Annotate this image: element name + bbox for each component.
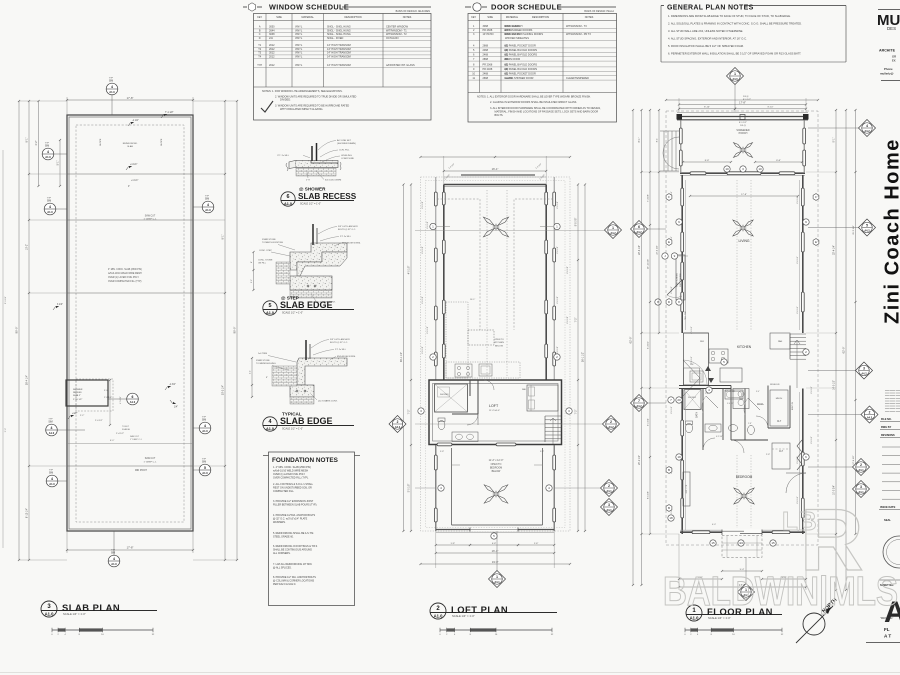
slab plan title — [41, 601, 57, 617]
kitchen counters — [684, 333, 709, 385]
detail 5 left dims — [253, 252, 255, 290]
loft stairs — [545, 415, 561, 417]
svg-text:4’-0 1/8": 4’-0 1/8" — [409, 266, 411, 275]
svg-text:8’-1": 8’-1" — [26, 137, 29, 142]
svg-text:3: 3 — [860, 485, 862, 489]
svg-text:A1.0: A1.0 — [111, 562, 117, 566]
svg-text:BUILT-IN: BUILT-IN — [792, 402, 794, 410]
svg-text:1x6 TRIM: 1x6 TRIM — [258, 353, 267, 355]
loft roof overhang dotted lines — [421, 177, 571, 531]
svg-text:5’-8": 5’-8" — [440, 451, 444, 453]
left page edge dim remnants — [2, 150, 4, 548]
svg-text:RECESS: RECESS — [73, 392, 82, 394]
svg-text:2’-8": 2’-8" — [766, 454, 770, 456]
svg-text:15: 15 — [771, 541, 775, 545]
svg-text:4: 4 — [269, 419, 272, 425]
loft top dims — [443, 156, 445, 185]
floor front wall — [680, 172, 805, 174]
door schedule table — [468, 14, 617, 123]
svg-text:SNGL - SNGL HUNG: SNGL - SNGL HUNG — [327, 26, 351, 29]
svg-text:SIM: SIM — [205, 198, 209, 201]
svg-text:SIM: SIM — [47, 200, 51, 203]
svg-text:CLT: CLT — [779, 451, 784, 453]
svg-text:A4.3: A4.3 — [867, 416, 873, 419]
svg-text:4: 4 — [49, 205, 51, 209]
svg-text:B: B — [668, 468, 670, 472]
loft bottom dims — [435, 531, 437, 568]
svg-text:KEY: KEY — [257, 16, 262, 19]
kitchen arrows — [705, 366, 711, 371]
svg-text:P.T. 2x SILL: P.T. 2x SILL — [335, 349, 347, 351]
detail 4 title — [263, 417, 277, 431]
svg-text:4: 4 — [204, 424, 206, 428]
svg-text:4: 4 — [51, 477, 53, 481]
svg-text:D3 @: D3 @ — [743, 96, 749, 98]
svg-text:BALDWIN|MLS: BALDWIN|MLS — [663, 568, 898, 614]
svg-text:@ SHOWER: @ SHOWER — [299, 187, 326, 192]
svg-text:LEVELING: LEVELING — [341, 155, 352, 157]
slab top dimension — [66, 97, 68, 115]
svg-text:4’-0 1/8": 4’-0 1/8" — [567, 266, 569, 274]
svg-text:3 1/4": 3 1/4" — [57, 304, 63, 306]
bedroom closet zigzag door — [797, 440, 802, 470]
detail 4 left dims — [251, 358, 253, 397]
svg-text:6: 6 — [287, 194, 290, 200]
svg-text:TYP: TYP — [109, 78, 114, 80]
bedroom bottom bubbles — [710, 540, 716, 546]
floor bottom wall — [680, 531, 805, 533]
loft callout diamonds — [605, 222, 622, 239]
svg-text:A1.0: A1.0 — [266, 427, 274, 431]
svg-text:NOTES: 1. FOR WINDOW LITE A: NOTES: 1. FOR WINDOW LITE ARRANGEMENTS, … — [262, 90, 343, 93]
svg-text:30’-3 1/4": 30’-3 1/4" — [222, 385, 225, 395]
svg-text:D3 @: D3 @ — [740, 125, 746, 127]
general plan notes box — [661, 5, 664, 7]
floor grid bubbles — [676, 219, 682, 225]
svg-text:A4.2: A4.2 — [861, 372, 867, 375]
svg-text:W/TRANSOM - T3: W/TRANSOM - T3 — [566, 25, 587, 28]
svg-text:A1.0: A1.0 — [49, 482, 55, 486]
loft vanity — [452, 432, 478, 442]
svg-text:2668: 2668 — [483, 45, 489, 48]
svg-text:8’-8": 8’-8" — [776, 160, 781, 162]
slab bottom dimension — [66, 531, 68, 553]
svg-text:EXT - SCREEN DOORS: EXT - SCREEN DOORS — [505, 29, 533, 32]
living interior dotted lines — [736, 180, 738, 330]
svg-text:4’-0 1/8": 4’-0 1/8" — [567, 316, 569, 324]
bath2 toilet — [748, 425, 755, 434]
loft top wall — [444, 184, 546, 186]
svg-text:END-EDGE W.W.M.: END-EDGE W.W.M. — [337, 356, 356, 358]
svg-text:80’-0": 80’-0" — [233, 327, 237, 334]
svg-text:A1.0: A1.0 — [202, 429, 208, 433]
svg-text:3050: 3050 — [269, 26, 275, 29]
svg-text:W/TRANSOM - PR T3: W/TRANSOM - PR T3 — [566, 33, 591, 36]
svg-text:19: 19 — [677, 455, 681, 459]
svg-text:A1.0: A1.0 — [284, 202, 292, 206]
svg-text:2’-2 1/4": 2’-2 1/4" — [104, 397, 112, 399]
slab plan scale bar — [52, 629, 153, 631]
slab plan outline — [67, 115, 193, 531]
svg-text:3: 3 — [863, 366, 865, 370]
svg-text:mullerly@: mullerly@ — [880, 72, 894, 76]
floor callout diamonds right — [859, 120, 876, 137]
svg-text:1" DEEP C.J.: 1" DEEP C.J. — [130, 439, 142, 441]
svg-text:6’-8": 6’-8" — [492, 543, 496, 545]
svg-text:4: 4 — [51, 426, 53, 430]
svg-text:+1/2": +1/2" — [72, 413, 78, 415]
svg-text:8’-1": 8’-1" — [834, 137, 836, 142]
svg-text:FILE NO.: FILE NO. — [881, 418, 892, 421]
svg-text:5: 5 — [269, 303, 272, 309]
svg-text:A1.0: A1.0 — [202, 471, 208, 475]
svg-text:5/8" LGTS. ANCHOR: 5/8" LGTS. ANCHOR — [330, 338, 350, 341]
svg-text:MATERIAL: MATERIAL — [506, 16, 519, 19]
svg-text:4’-0 1/8": 4’-0 1/8" — [427, 221, 429, 229]
svg-text:62’-0": 62’-0" — [842, 347, 846, 354]
svg-text:(2) #5 BARS CONT.: (2) #5 BARS CONT. — [318, 400, 338, 403]
svg-text:14" HIGH TRANSOM: 14" HIGH TRANSOM — [327, 44, 351, 47]
svg-text:A4.2: A4.2 — [864, 130, 870, 133]
entry door arcs — [683, 360, 700, 396]
loft toilet — [438, 420, 445, 429]
svg-text:4: 4 — [113, 557, 115, 561]
loft room windows bottom — [437, 443, 452, 446]
svg-text:TO WATER-EDGING: TO WATER-EDGING — [256, 362, 276, 365]
svg-text:4’-0 1/8": 4’-0 1/8" — [557, 346, 559, 354]
svg-text:5’-0 1/8": 5’-0 1/8" — [409, 484, 411, 493]
svg-text:4: 4 — [207, 203, 209, 207]
bath2 partition — [722, 389, 724, 441]
svg-text:SNGL - SNGL HUNG: SNGL - SNGL HUNG — [327, 29, 351, 32]
svg-text:3. ALL STUD WALL ARE 2X4, UN: 3. ALL STUD WALL ARE 2X4, UNLESS NOTED O… — [668, 29, 743, 33]
svg-text:TOILET: TOILET — [122, 426, 130, 428]
svg-text:14’-9 1/2": 14’-9 1/2" — [834, 380, 836, 390]
svg-text:END-EDGE W.W.M.: END-EDGE W.W.M. — [342, 243, 361, 245]
svg-text:NOTES: 1. ALL EXTERIOR DOOR: NOTES: 1. ALL EXTERIOR DOOR HARDWARE SHA… — [477, 96, 591, 99]
detail 5 anchor bolt — [312, 224, 314, 245]
svg-text:SHOWER: SHOWER — [688, 397, 697, 399]
svg-text:2" R: 2" R — [306, 180, 310, 182]
svg-text:W/FIXED SIDELITES: W/FIXED SIDELITES — [505, 37, 529, 40]
svg-text:KITCHEN: KITCHEN — [737, 345, 752, 349]
loft bottom opening — [470, 528, 518, 531]
svg-text:7’-2": 7’-2" — [409, 409, 411, 414]
svg-text:4’-0 1/8": 4’-0 1/8" — [557, 246, 559, 254]
svg-text:5’-1": 5’-1" — [57, 160, 60, 165]
svg-text:GR: GR — [892, 55, 896, 59]
svg-text:DOOR SCHEDULE: DOOR SCHEDULE — [491, 3, 562, 12]
sheet no row — [879, 579, 900, 581]
bath door swings — [706, 396, 718, 408]
floor roof overhang dashed rect — [666, 111, 818, 545]
svg-text:17’-8": 17’-8" — [127, 546, 134, 550]
svg-text:4’-6 1/4": 4’-6 1/4" — [797, 306, 799, 314]
svg-text:DESCRIPTION: DESCRIPTION — [532, 16, 549, 19]
svg-text:1: 1 — [612, 226, 614, 230]
svg-text:BASIS OF DESIGN: JELD-WEN: BASIS OF DESIGN: JELD-WEN — [396, 10, 431, 13]
svg-text:5/8" LGTS. ANCHOR: 5/8" LGTS. ANCHOR — [338, 225, 358, 228]
svg-text:A T: A T — [884, 634, 891, 639]
svg-text:P.T. 2x SILL: P.T. 2x SILL — [277, 155, 289, 157]
loft partition walls — [477, 380, 479, 414]
loft door arcs — [467, 414, 478, 425]
svg-text:VINYL: VINYL — [295, 33, 303, 36]
svg-text:-1 3/4": -1 3/4" — [169, 384, 176, 386]
svg-text:6: 6 — [132, 395, 134, 399]
svg-text:REVISIONS: REVISIONS — [881, 434, 895, 437]
svg-text:4: 4 — [866, 124, 868, 128]
detail 5 title — [263, 301, 277, 315]
svg-text:5. ROOF INSULATION SHALL BE: 5. ROOF INSULATION SHALL BE 5 1/2" OF SP… — [668, 44, 744, 48]
svg-text:Zini Coach Home: Zini Coach Home — [882, 138, 900, 324]
title block logo MU — [878, 9, 900, 11]
svg-text:8’-1 1/2": 8’-1 1/2" — [739, 122, 747, 124]
svg-text:SCALE 1/4" = 1'-0": SCALE 1/4" = 1'-0" — [452, 614, 475, 618]
svg-text:D: D — [259, 37, 261, 40]
svg-text:3068: 3068 — [483, 25, 489, 28]
svg-text:4’-5 1/2": 4’-5 1/2" — [120, 396, 122, 404]
loft bed — [527, 385, 558, 411]
svg-text:SIM: SIM — [202, 419, 206, 422]
svg-text:8’-1 1/2": 8’-1 1/2" — [743, 99, 751, 101]
svg-text:7’-2": 7’-2" — [576, 409, 578, 414]
svg-text:A1.0: A1.0 — [49, 431, 55, 435]
svg-text:1'-4": 1'-4" — [250, 370, 252, 374]
bath vanity — [705, 424, 721, 432]
svg-text:3’-6": 3’-6" — [5, 428, 7, 433]
svg-text:6’-4 1/2": 6’-4 1/2" — [648, 341, 650, 349]
porch interior dims — [683, 161, 731, 163]
svg-text:SAW CUT: SAW CUT — [145, 457, 156, 460]
svg-text:OVER COMPACTED FILL (TYP).: OVER COMPACTED FILL (TYP). — [273, 477, 309, 480]
bath2 vanity oval — [728, 425, 737, 432]
svg-text:A4.2: A4.2 — [636, 405, 642, 408]
svg-text:A4.2: A4.2 — [636, 231, 642, 234]
svg-text:SAW CUT: SAW CUT — [130, 435, 140, 438]
bedroom entertainment niche — [683, 472, 690, 506]
svg-text:@ ALL SPLICES.: @ ALL SPLICES. — [273, 567, 292, 570]
svg-text:4. ALL STUD SPACING, EXTERIO: 4. ALL STUD SPACING, EXTERIOR AND INTERI… — [668, 37, 747, 41]
svg-text:A1.0: A1.0 — [47, 210, 53, 214]
svg-text:SIM: SIM — [202, 461, 206, 464]
floor plan scale bar — [685, 629, 782, 631]
loft right dims — [577, 185, 579, 532]
svg-text:W/TRANSOM - T2: W/TRANSOM - T2 — [386, 33, 407, 36]
svg-text:17’-8": 17’-8" — [741, 194, 747, 196]
svg-text:PR 2068: PR 2068 — [483, 64, 493, 67]
svg-text:7: 7 — [638, 399, 640, 403]
svg-text:1'-2": 1'-2" — [251, 279, 253, 283]
porch screen walls — [680, 120, 682, 172]
floor left dim lines — [632, 110, 634, 585]
svg-text:A4.2: A4.2 — [395, 426, 401, 429]
svg-text:6x6 10/10 WWM: 6x6 10/10 WWM — [325, 180, 341, 182]
svg-text:GENERAL PLAN NOTES: GENERAL PLAN NOTES — [667, 5, 754, 12]
svg-text:BELOW: BELOW — [495, 345, 504, 347]
svg-text:4’-6 1/4": 4’-6 1/4" — [691, 356, 693, 364]
svg-text:80’-0": 80’-0" — [15, 327, 19, 334]
svg-text:BASIS OF DESIGN: PELLA: BASIS OF DESIGN: PELLA — [584, 10, 614, 13]
stairs right — [790, 333, 806, 335]
svg-text:FL: FL — [884, 627, 890, 632]
porch posts — [677, 114, 683, 120]
svg-text:2’-4 1/2": 2’-4 1/2" — [95, 420, 103, 422]
kitchen range — [709, 349, 728, 363]
svg-text:KEY: KEY — [471, 16, 476, 19]
svg-text:16’-1": 16’-1" — [470, 299, 475, 301]
svg-text:B: B — [668, 506, 670, 510]
porch ceiling fan — [745, 151, 753, 157]
svg-text:E: E — [815, 240, 817, 244]
svg-text:(2) PANEL BI-FOLD DOORS: (2) PANEL BI-FOLD DOORS — [505, 49, 537, 52]
floor callout diamonds left — [631, 221, 648, 238]
svg-text:TYP: TYP — [202, 459, 207, 461]
detail 6 break marks — [286, 163, 288, 171]
bath2 tub — [725, 390, 743, 399]
entertainment center niche — [676, 255, 685, 300]
svg-text:PORCH: PORCH — [739, 132, 748, 135]
svg-text:BARN DOOR: BARN DOOR — [505, 58, 520, 61]
svg-text:A1.0: A1.0 — [109, 90, 115, 94]
svg-text:7’-2": 7’-2" — [576, 317, 578, 322]
svg-text:2668: 2668 — [483, 77, 489, 80]
svg-text:CLT: CLT — [777, 420, 782, 423]
svg-text:WITH INSULATED IMPACT GLAZING.: WITH INSULATED IMPACT GLAZING. — [280, 108, 324, 111]
svg-text:8’-1": 8’-1" — [639, 137, 641, 142]
svg-text:4: 4 — [47, 150, 49, 154]
svg-text:15’-3 1/4": 15’-3 1/4" — [853, 225, 855, 235]
svg-text:SLAB EDGE: SLAB EDGE — [280, 416, 333, 426]
svg-text:"DRAWING": "DRAWING" — [880, 617, 893, 620]
svg-text:FLANGE: FLANGE — [122, 428, 131, 431]
loft deck rail right — [553, 177, 555, 380]
svg-text:COMPACTED FILL.: COMPACTED FILL. — [273, 490, 295, 493]
porch steps left — [663, 131, 665, 171]
svg-text:8’-0 1/4": 8’-0 1/4" — [5, 296, 7, 304]
svg-text:MID POINT: MID POINT — [135, 470, 147, 472]
detail 6 shower slab recess drawing — [295, 161, 338, 168]
svg-text:STAIR STONE: STAIR STONE — [256, 359, 270, 362]
svg-text:GLASS SHOWER DOOR: GLASS SHOWER DOOR — [505, 77, 534, 80]
svg-text:BOLTS @ 32" O.C.: BOLTS @ 32" O.C. — [330, 342, 348, 344]
svg-text:SLOPE: SLOPE — [161, 138, 163, 146]
svg-text:22’-4 1/4": 22’-4 1/4" — [657, 245, 659, 255]
svg-text:TYP: TYP — [47, 198, 52, 200]
loft right wall upper — [545, 185, 547, 381]
svg-text:6’-2 1/4": 6’-2 1/4" — [716, 436, 723, 438]
svg-text:1" DEEP C.J.: 1" DEEP C.J. — [143, 461, 156, 463]
svg-text:TYP: TYP — [48, 419, 53, 421]
svg-text:SCALE 1/4" = 1'-0": SCALE 1/4" = 1'-0" — [63, 612, 86, 616]
svg-text:11’-2" x 12’-0": 11’-2" x 12’-0" — [489, 459, 504, 462]
svg-text:4": 4" — [128, 186, 130, 188]
svg-text:4’-6 1/4": 4’-6 1/4" — [797, 256, 799, 264]
kitchen island — [720, 368, 742, 382]
svg-text:2. GLAZING IN EXTERIOR DOORS: 2. GLAZING IN EXTERIOR DOORS SHALL BE IN… — [490, 101, 577, 104]
svg-text:2012: 2012 — [269, 55, 275, 58]
svg-text:OVER COMPACTED FILL (TYP): OVER COMPACTED FILL (TYP) — [108, 280, 142, 283]
svg-text:E: E — [668, 240, 670, 244]
svg-text:STEEL GRADE 60.: STEEL GRADE 60. — [273, 536, 294, 539]
loft clerestory window strip — [461, 174, 535, 176]
svg-text:HALL: HALL — [757, 402, 764, 406]
loft plan scale bar — [440, 629, 552, 631]
svg-text:DES: DES — [887, 26, 896, 31]
svg-text:LIVING: LIVING — [738, 239, 749, 243]
svg-text:4’-6 1/4": 4’-6 1/4" — [691, 326, 693, 334]
svg-text:16’-1": 16’-1" — [492, 549, 499, 553]
svg-text:OPEN TO: OPEN TO — [494, 339, 504, 341]
detail 6 pipes — [311, 146, 313, 161]
svg-text:1. DIMENSIONS ARE FROM SLAB: 1. DIMENSIONS ARE FROM SLAB EDGE TO FACE… — [668, 14, 791, 18]
svg-text:5: 5 — [866, 223, 868, 227]
svg-text:EXT - PR. 3068 SLIDING DOORS: EXT - PR. 3068 SLIDING DOORS — [505, 33, 543, 36]
svg-text:3: 3 — [608, 503, 610, 507]
svg-text:A4.0: A4.0 — [732, 78, 738, 81]
svg-text:3’-0": 3’-0" — [756, 391, 760, 393]
svg-text:TYP: TYP — [45, 143, 50, 145]
svg-text:8’-1": 8’-1" — [657, 138, 659, 143]
svg-text:(2) PANEL POCKET DOOR: (2) PANEL POCKET DOOR — [505, 45, 536, 48]
svg-text:SNGL - FIXED: SNGL - FIXED — [327, 37, 343, 40]
svg-text:TYP: TYP — [49, 470, 54, 472]
svg-text:1: 1 — [496, 575, 498, 579]
svg-text:NICHE F/B: NICHE F/B — [770, 384, 780, 386]
north arrow — [803, 613, 825, 635]
door key bubbles — [724, 166, 730, 172]
hall door arcs — [731, 440, 744, 453]
rear patio steps — [722, 536, 762, 558]
svg-text:7’-1 1/2": 7’-1 1/2" — [165, 112, 174, 114]
svg-text:PR 2468: PR 2468 — [483, 68, 493, 71]
svg-text:2612: 2612 — [269, 48, 275, 51]
svg-text:TO MATCH EXISTING: TO MATCH EXISTING — [262, 241, 283, 244]
svg-text:SIM: SIM — [45, 145, 49, 148]
svg-text:2’-2": 2’-2" — [80, 415, 84, 417]
floor window key hexagons — [666, 194, 672, 201]
svg-text:DWG BY: DWG BY — [881, 426, 892, 429]
svg-text:2468: 2468 — [483, 53, 489, 56]
svg-text:8": 8" — [266, 377, 268, 379]
svg-text:14" HIGH TRANSOM: 14" HIGH TRANSOM — [327, 48, 351, 51]
svg-text:VINYL: VINYL — [295, 52, 303, 55]
svg-text:OCTAGON: OCTAGON — [386, 37, 399, 40]
loft ceiling fan upper — [498, 228, 509, 237]
svg-text:REINFORCED: REINFORCED — [123, 143, 138, 145]
svg-text:36’-1 1/2": 36’-1 1/2" — [400, 352, 403, 362]
svg-text:5’-1": 5’-1" — [104, 390, 109, 392]
loft bottom wall — [436, 529, 554, 531]
svg-text:20: 20 — [677, 398, 681, 402]
svg-text:xxxx xxxxxx xxxx: xxxx xxxxxx xxxx — [885, 411, 900, 413]
loft ridge dotted lines — [486, 190, 488, 378]
svg-text:DW: DW — [690, 364, 693, 366]
svg-text:15: 15 — [711, 541, 715, 545]
svg-text:2644: 2644 — [269, 29, 275, 32]
svg-text:1/4": 1/4" — [174, 406, 178, 408]
svg-text:(2) PANEL POCKET DOOR: (2) PANEL POCKET DOOR — [505, 72, 536, 75]
svg-text:WASHERS.: WASHERS. — [273, 521, 286, 524]
svg-text:BEDROOM: BEDROOM — [736, 475, 753, 479]
svg-text:F: F — [668, 195, 670, 199]
svg-text:8’-5 1/8": 8’-5 1/8" — [648, 491, 650, 499]
svg-text:A1.0: A1.0 — [266, 311, 274, 315]
svg-text:SNGL - SNGL HUNG: SNGL - SNGL HUNG — [327, 33, 351, 36]
svg-text:SLAB RECESS: SLAB RECESS — [298, 192, 357, 201]
floor bottom callout diamond — [738, 584, 755, 601]
svg-text:2: 2 — [397, 420, 399, 424]
